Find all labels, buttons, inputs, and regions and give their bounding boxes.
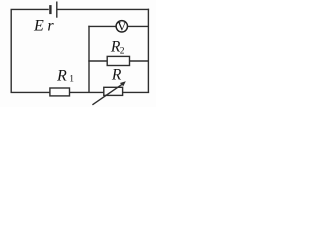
svg-text:R: R: [111, 67, 122, 84]
svg-text:r: r: [47, 18, 54, 35]
wire: bottom: [11, 91, 150, 93]
wire: R2 branch: [88, 60, 148, 62]
wire: right vertical: [147, 9, 149, 93]
voltmeter V: [116, 21, 127, 32]
wire: top left to battery: [11, 8, 49, 10]
battery E r: short thick plate: [49, 5, 51, 14]
wire: middle vertical node: [88, 26, 90, 93]
rheostat R (box): [104, 87, 123, 95]
battery E r: long thin plate: [56, 2, 58, 18]
wire: voltmeter branch: [88, 25, 148, 27]
svg-text:R: R: [56, 68, 67, 85]
svg-text:2: 2: [120, 47, 125, 57]
svg-text:V: V: [117, 20, 127, 34]
resistor R2: [107, 56, 129, 65]
svg-text:1: 1: [69, 75, 74, 85]
rheostat R: arrow: [92, 84, 123, 105]
wire: left vertical: [10, 9, 12, 92]
resistor R1: [50, 88, 70, 96]
svg-text:E: E: [33, 18, 44, 35]
wire: battery to top-right corner: [57, 8, 149, 10]
